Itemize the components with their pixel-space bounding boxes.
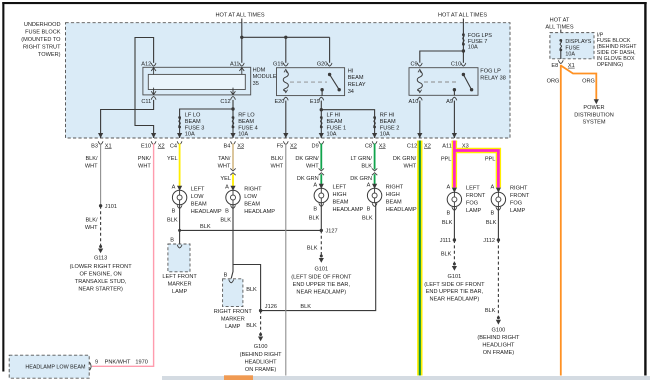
svg-text:UNDERHOOD: UNDERHOOD xyxy=(24,22,61,28)
svg-text:ON FRAME): ON FRAME) xyxy=(483,350,515,356)
svg-text:RIGHT: RIGHT xyxy=(244,187,262,193)
svg-text:DISTRIBUTION: DISTRIBUTION xyxy=(574,112,613,118)
pin G19 xyxy=(273,61,288,67)
svg-text:LEFT: LEFT xyxy=(466,186,480,192)
fog relay contact to A9 xyxy=(453,88,456,95)
svg-text:BLK: BLK xyxy=(246,323,257,329)
wire C12 to fuses xyxy=(232,100,234,138)
svg-text:WHT: WHT xyxy=(138,163,151,169)
pin A right fog xyxy=(490,185,501,193)
svg-text:BLK: BLK xyxy=(485,308,496,314)
svg-text:OF ENGINE, ON: OF ENGINE, ON xyxy=(79,272,121,278)
fog relay coil xyxy=(417,69,422,92)
hdm module label xyxy=(253,68,277,87)
svg-text:BLK/: BLK/ xyxy=(85,156,98,162)
svg-text:B: B xyxy=(446,211,450,217)
svg-text:FOG: FOG xyxy=(510,201,522,207)
label BLK xyxy=(220,217,231,223)
svg-text:FUSE: FUSE xyxy=(565,45,580,51)
bottom strip track xyxy=(162,376,650,380)
svg-text:X1: X1 xyxy=(568,63,575,69)
junction E19 bus xyxy=(320,108,323,111)
wire YEL to lamp xyxy=(232,174,234,186)
pin B left fog xyxy=(446,207,456,216)
wire right low B to J126 branch xyxy=(233,205,261,311)
exit arrow B4 xyxy=(224,133,244,149)
page border frame left xyxy=(2,2,4,372)
label BLK below J126 xyxy=(246,323,257,329)
wire BLK bus to J127 xyxy=(180,229,322,231)
svg-text:WHT: WHT xyxy=(85,225,98,231)
svg-text:OPENING): OPENING) xyxy=(597,62,623,68)
label PPL right xyxy=(485,157,496,163)
svg-text:1970: 1970 xyxy=(135,360,147,366)
label BLK below J111 xyxy=(441,252,452,258)
svg-text:DISPLAYS: DISPLAYS xyxy=(565,39,591,45)
svg-text:BLK: BLK xyxy=(309,215,320,221)
exit arrow D9 xyxy=(312,133,324,149)
svg-text:LOW: LOW xyxy=(191,194,204,200)
svg-text:B3: B3 xyxy=(91,143,98,149)
svg-text:LEFT: LEFT xyxy=(333,185,347,191)
lamp RIGHT HIGH BEAM HEADLAMP xyxy=(367,185,416,214)
svg-text:C4: C4 xyxy=(170,143,177,149)
label DK GRN xyxy=(297,176,319,182)
wire A11 PPL highlighted xyxy=(452,141,457,188)
pin C10 xyxy=(451,61,466,67)
svg-text:A: A xyxy=(446,185,450,191)
svg-text:BLK/: BLK/ xyxy=(85,218,98,224)
svg-text:BLK: BLK xyxy=(442,220,453,226)
bottom strip thumb xyxy=(224,375,253,380)
lamp LEFT HIGH BEAM HEADLAMP xyxy=(314,185,363,214)
svg-text:A: A xyxy=(313,183,317,189)
svg-text:E20: E20 xyxy=(274,99,284,105)
svg-text:G100: G100 xyxy=(254,344,268,350)
wire right fog B to J112 xyxy=(497,207,499,240)
svg-text:RELAY 38: RELAY 38 xyxy=(480,76,506,82)
svg-text:BEAM: BEAM xyxy=(191,202,207,208)
ground G101 right xyxy=(424,263,485,303)
svg-text:HDM: HDM xyxy=(253,68,266,74)
svg-text:X2: X2 xyxy=(158,143,165,149)
svg-text:WHT: WHT xyxy=(85,163,98,169)
node HOT AT ALL TIMES (ip) xyxy=(545,17,574,30)
fuse RF LO BEAM FUSE 4 xyxy=(232,113,258,138)
wire E20 to F5 exit xyxy=(285,101,287,138)
svg-text:BLK: BLK xyxy=(246,287,257,293)
ground G113 xyxy=(70,245,133,293)
svg-text:HEADLAMP: HEADLAMP xyxy=(244,209,275,215)
svg-text:J111: J111 xyxy=(440,238,451,244)
label BLK above G100 xyxy=(485,308,496,314)
node J127 xyxy=(320,229,338,235)
relay coil xyxy=(283,69,288,92)
wire A12 loop to E10 xyxy=(135,38,154,139)
lamp RIGHT FRONT FOG LAMP xyxy=(491,186,530,215)
svg-text:FRONT: FRONT xyxy=(510,193,530,199)
svg-text:E8: E8 xyxy=(551,63,558,69)
pin 9 xyxy=(90,360,99,371)
svg-text:X2: X2 xyxy=(424,143,431,149)
svg-text:RF LO: RF LO xyxy=(238,113,255,119)
svg-text:9: 9 xyxy=(95,360,98,366)
label DK GRN/WHT xyxy=(295,156,319,169)
wire DK GRN to lamp xyxy=(374,174,376,184)
pin A left fog xyxy=(446,185,457,193)
pin A right low xyxy=(225,185,236,191)
label BLK right fog xyxy=(486,220,497,226)
wire fog feed xyxy=(462,19,464,63)
svg-text:END UPPER TIE BAR,: END UPPER TIE BAR, xyxy=(426,289,484,295)
pin A right high xyxy=(367,183,378,189)
svg-text:BEAM: BEAM xyxy=(327,119,343,125)
headlamp low beam label xyxy=(25,365,86,371)
svg-text:MODULE: MODULE xyxy=(253,74,277,80)
svg-text:BEAM: BEAM xyxy=(244,202,260,208)
svg-text:MARKER: MARKER xyxy=(221,317,245,323)
svg-text:BEAM: BEAM xyxy=(386,200,402,206)
svg-text:RELAY: RELAY xyxy=(348,82,366,88)
wire to C9 xyxy=(420,51,464,63)
pin C12 xyxy=(220,88,235,105)
label YEL xyxy=(220,176,231,182)
wire DK GRN to lamp xyxy=(320,174,322,184)
label PNK/WHT 1970 xyxy=(105,360,148,366)
svg-text:34: 34 xyxy=(348,89,354,95)
pin C9 xyxy=(410,61,422,67)
svg-text:WHT: WHT xyxy=(306,163,319,169)
svg-text:B: B xyxy=(170,238,174,244)
svg-text:END UPPER TIE BAR,: END UPPER TIE BAR, xyxy=(293,282,351,288)
svg-text:LEFT FRONT: LEFT FRONT xyxy=(162,274,197,280)
svg-text:ALL TIMES: ALL TIMES xyxy=(545,25,574,31)
svg-text:LAMP: LAMP xyxy=(510,208,526,214)
label BLK/WHT xyxy=(85,156,98,169)
svg-text:G101: G101 xyxy=(314,267,328,273)
svg-text:DK GRN: DK GRN xyxy=(297,176,319,182)
pin A left low xyxy=(172,185,183,191)
exit arrow C12 xyxy=(407,133,431,149)
wire E10 PNK/WHT xyxy=(92,144,154,367)
svg-text:A: A xyxy=(367,183,371,189)
wire fuse to pin xyxy=(560,50,562,59)
wire E19 to fuses xyxy=(320,101,322,138)
fog lp relay label xyxy=(480,68,506,81)
exit arrow C4 xyxy=(170,133,182,149)
splice right high xyxy=(372,168,377,175)
svg-text:C10: C10 xyxy=(451,61,461,67)
svg-text:LAMP: LAMP xyxy=(225,324,241,330)
headlamp low beam box xyxy=(9,355,89,378)
svg-text:A11: A11 xyxy=(230,61,240,67)
ground G100 right xyxy=(477,316,520,356)
svg-text:PNK/: PNK/ xyxy=(138,156,152,162)
lamp RIGHT LOW BEAM HEADLAMP xyxy=(226,187,275,216)
junction at G19 drop xyxy=(284,36,287,39)
wire ip feed xyxy=(560,30,562,35)
underhood fuse block label xyxy=(21,22,61,58)
svg-text:(BEHIND RIGHT: (BEHIND RIGHT xyxy=(240,352,283,358)
svg-text:ORG: ORG xyxy=(582,78,595,84)
label BLK/WHT xyxy=(270,156,283,169)
wire dashed to G100 right xyxy=(497,240,499,317)
svg-text:BLK: BLK xyxy=(486,220,497,226)
svg-text:B: B xyxy=(224,272,228,278)
pin A12 xyxy=(141,61,156,74)
svg-text:A11: A11 xyxy=(442,143,452,149)
svg-text:RF HI: RF HI xyxy=(380,113,395,119)
svg-text:FUSE 4: FUSE 4 xyxy=(238,125,258,131)
left front marker lamp label xyxy=(162,274,197,295)
pin E8 xyxy=(551,60,574,69)
wire ORG down page xyxy=(560,65,562,376)
svg-text:RIGHT FRONT: RIGHT FRONT xyxy=(214,309,253,315)
hi beam relay box xyxy=(277,68,345,96)
svg-text:C11: C11 xyxy=(141,99,151,105)
svg-text:POWER: POWER xyxy=(583,105,604,111)
left front marker lamp box xyxy=(168,238,190,272)
label BLK left fog xyxy=(442,220,453,226)
hdm module inner box xyxy=(148,74,245,89)
svg-text:HEADLIGHT: HEADLIGHT xyxy=(482,343,515,349)
pin A11 xyxy=(230,61,244,74)
label BLK below J127 xyxy=(307,245,318,251)
svg-text:YEL: YEL xyxy=(220,176,231,182)
label DK GRN xyxy=(350,176,372,182)
junction at A11 drop xyxy=(240,36,243,39)
svg-text:LEFT: LEFT xyxy=(191,187,205,193)
svg-text:FOG LP: FOG LP xyxy=(480,68,501,74)
svg-text:LOW: LOW xyxy=(244,194,257,200)
fuse DISPLAYS FUSE 10A xyxy=(559,39,591,58)
node J101 xyxy=(99,204,117,210)
svg-text:BLK: BLK xyxy=(300,304,311,310)
node J111 xyxy=(440,238,456,244)
node HOT AT ALL TIMES (left feed) xyxy=(215,13,264,19)
svg-text:TAN/: TAN/ xyxy=(218,156,231,162)
wire C12 highlighted DK GRN/WHT xyxy=(417,141,422,376)
wire B3 BLK/WHT xyxy=(100,144,102,206)
svg-text:PPL: PPL xyxy=(441,157,452,163)
svg-text:NEAR HEADLAMP): NEAR HEADLAMP) xyxy=(296,290,346,296)
svg-text:SYSTEM: SYSTEM xyxy=(582,120,605,126)
svg-text:10A: 10A xyxy=(238,132,248,138)
svg-text:LF LO: LF LO xyxy=(185,113,201,119)
ground G100 left xyxy=(240,333,283,373)
svg-text:HEADLAMP LOW BEAM: HEADLAMP LOW BEAM xyxy=(25,365,86,371)
label BLK at 260 xyxy=(246,287,257,293)
svg-text:J126: J126 xyxy=(265,304,277,310)
svg-text:10A: 10A xyxy=(185,132,195,138)
wire left high B to J127 xyxy=(320,203,322,231)
fuse FOG LPS FUSE 7 xyxy=(462,33,492,50)
pin A9 xyxy=(446,97,457,105)
svg-text:FRONT: FRONT xyxy=(466,193,486,199)
svg-text:NEAR STARTER): NEAR STARTER) xyxy=(78,287,123,293)
label BLK xyxy=(167,217,178,223)
svg-text:G113: G113 xyxy=(94,256,107,262)
wire left low B down xyxy=(179,205,181,244)
fuse RF HI BEAM FUSE 2 xyxy=(373,113,399,138)
svg-text:BEAM: BEAM xyxy=(238,119,254,125)
pin E20 xyxy=(274,97,288,105)
svg-text:E19: E19 xyxy=(310,99,320,105)
svg-text:BEAM: BEAM xyxy=(333,200,349,206)
svg-text:(LEFT SIDE OF FRONT: (LEFT SIDE OF FRONT xyxy=(291,275,352,281)
svg-text:X3: X3 xyxy=(237,143,244,149)
svg-text:LF HI: LF HI xyxy=(327,113,341,119)
page border frame top xyxy=(2,2,646,4)
svg-text:WHT: WHT xyxy=(218,163,231,169)
svg-text:NEAR HEADLAMP): NEAR HEADLAMP) xyxy=(430,296,480,302)
pin A10 xyxy=(408,97,422,105)
svg-text:G101: G101 xyxy=(448,274,462,280)
node J126 xyxy=(259,304,277,312)
exit arrow E10 xyxy=(141,133,165,149)
wire C11 to B3 exit xyxy=(101,100,154,138)
svg-text:HOT AT: HOT AT xyxy=(550,17,570,23)
pin B right fog xyxy=(490,207,500,216)
svg-text:B: B xyxy=(313,207,317,213)
wire A9 to A11 exit xyxy=(453,101,455,138)
svg-text:E10: E10 xyxy=(141,143,151,149)
svg-text:G19: G19 xyxy=(273,61,284,67)
svg-text:TRANSAXLE STUD,: TRANSAXLE STUD, xyxy=(75,279,127,285)
svg-text:BLK: BLK xyxy=(441,252,452,258)
pin A left high xyxy=(313,183,324,189)
svg-text:BLK: BLK xyxy=(220,217,231,223)
relay link dashed xyxy=(290,81,327,83)
ground G101 left xyxy=(291,255,352,296)
svg-text:G20: G20 xyxy=(317,61,328,67)
wire C8 LT GRN/BLK xyxy=(374,144,376,170)
svg-text:X2: X2 xyxy=(290,143,297,149)
svg-text:FUSE 3: FUSE 3 xyxy=(185,125,205,131)
svg-text:G100: G100 xyxy=(492,328,506,334)
svg-text:(MOUNTED TO: (MOUNTED TO xyxy=(21,37,61,43)
svg-text:LT GRN/: LT GRN/ xyxy=(350,156,372,162)
svg-text:DK GRN/: DK GRN/ xyxy=(393,156,417,162)
lamp LEFT LOW BEAM HEADLAMP xyxy=(172,187,221,216)
splice right low xyxy=(230,168,235,175)
svg-text:HIGH: HIGH xyxy=(386,192,400,198)
svg-text:ORG: ORG xyxy=(547,78,560,84)
ip fuse block label xyxy=(597,32,637,68)
svg-text:FUSE 1: FUSE 1 xyxy=(327,125,347,131)
right front marker lamp label xyxy=(214,309,253,330)
pin B right low xyxy=(225,205,235,214)
wire dashed to G113 xyxy=(100,206,102,246)
label BLK xyxy=(309,215,320,221)
wire A10 to C12 exit xyxy=(419,101,421,138)
relay switch contact to E19 xyxy=(320,88,323,96)
label ORG left xyxy=(547,78,560,84)
svg-text:B: B xyxy=(225,209,229,215)
wire F5 BLK/WHT xyxy=(285,144,287,376)
wire feed down to A11 xyxy=(241,19,243,63)
pin B left low xyxy=(172,205,182,214)
wire D9 DK GRN/WHT xyxy=(320,144,322,170)
svg-text:35: 35 xyxy=(253,81,259,87)
pin E19 xyxy=(310,97,324,105)
fuse LF LO BEAM FUSE 3 xyxy=(178,113,204,138)
svg-text:HEADLIGHT: HEADLIGHT xyxy=(245,360,278,366)
wire C4 YEL xyxy=(179,144,181,187)
svg-text:J112: J112 xyxy=(483,238,495,244)
svg-text:BLK: BLK xyxy=(361,163,372,169)
arrow power distribution xyxy=(574,99,613,125)
svg-text:10A: 10A xyxy=(565,52,575,58)
svg-text:B: B xyxy=(490,211,494,217)
fuse LF HI BEAM FUSE 1 xyxy=(320,113,346,138)
wire dashed to G100 xyxy=(260,311,262,334)
label TAN/WHT xyxy=(218,156,231,169)
relay switch blade xyxy=(328,73,341,92)
svg-text:10A: 10A xyxy=(380,132,390,138)
svg-text:WHT: WHT xyxy=(403,163,416,169)
svg-text:C12: C12 xyxy=(407,143,417,149)
label PPL left xyxy=(441,157,452,163)
junction at 179.6,230.4 xyxy=(178,229,181,232)
svg-text:BEAM: BEAM xyxy=(348,75,364,81)
svg-text:C9: C9 xyxy=(410,61,417,67)
label LT GRN/BLK xyxy=(350,156,372,169)
svg-text:D9: D9 xyxy=(312,143,319,149)
svg-text:BLK: BLK xyxy=(200,224,211,230)
right front marker lamp box xyxy=(223,272,243,306)
node HOT AT ALL TIMES (fog feed) xyxy=(438,13,487,19)
svg-text:B: B xyxy=(367,207,371,213)
label BLK on bus xyxy=(200,224,211,230)
lamp LEFT FRONT FOG LAMP xyxy=(447,186,486,215)
svg-text:BLK/: BLK/ xyxy=(271,156,284,162)
svg-text:A: A xyxy=(172,185,176,191)
label BLK/WHT lower xyxy=(85,218,98,231)
svg-text:BLK: BLK xyxy=(307,245,318,251)
splice left high xyxy=(319,168,324,175)
page border frame right xyxy=(644,2,646,376)
hdm module outer box xyxy=(143,67,251,95)
wire left fog B to J111 xyxy=(453,207,455,240)
svg-text:BEAM: BEAM xyxy=(185,119,201,125)
svg-text:LAMP: LAMP xyxy=(172,289,188,295)
svg-text:DK GRN: DK GRN xyxy=(350,176,372,182)
svg-text:DK GRN/: DK GRN/ xyxy=(295,156,319,162)
fog relay link dashed xyxy=(424,81,456,83)
svg-text:HOT AT ALL TIMES: HOT AT ALL TIMES xyxy=(438,13,487,19)
pin B right high xyxy=(367,203,377,212)
wire dashed to G101 xyxy=(320,230,322,255)
label DK GRN/WHT xyxy=(393,156,417,169)
svg-text:J101: J101 xyxy=(105,204,117,210)
svg-text:PPL: PPL xyxy=(485,157,496,163)
label YEL xyxy=(167,156,178,162)
svg-text:X1: X1 xyxy=(105,143,112,149)
wire B4 TAN/WHT xyxy=(232,144,234,170)
underhood fuse block box xyxy=(66,23,511,138)
label PNK/WHT xyxy=(138,156,152,169)
exit arrow B3 xyxy=(91,133,111,149)
svg-text:RIGHT STRUT: RIGHT STRUT xyxy=(23,44,61,50)
svg-text:LAMP: LAMP xyxy=(466,208,482,214)
label BLK on J126 bus xyxy=(300,304,311,310)
svg-text:YEL: YEL xyxy=(167,156,178,162)
label BLK xyxy=(362,215,373,221)
svg-text:(BEHIND RIGHT: (BEHIND RIGHT xyxy=(477,335,520,341)
svg-text:BEAM: BEAM xyxy=(380,119,396,125)
svg-text:MARKER: MARKER xyxy=(168,281,192,287)
